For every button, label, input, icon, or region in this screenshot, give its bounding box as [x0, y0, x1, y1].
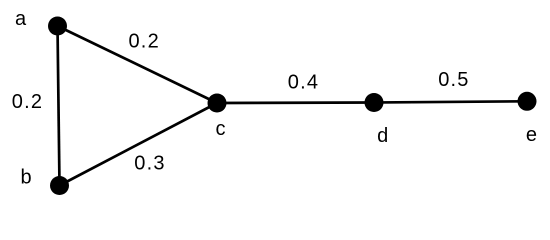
svg-text:0.3: 0.3 [134, 152, 165, 174]
svg-text:b: b [20, 167, 31, 189]
svg-text:0.4: 0.4 [288, 71, 319, 93]
svg-text:d: d [377, 125, 388, 147]
svg-text:a: a [15, 8, 27, 30]
svg-text:0.2: 0.2 [12, 91, 43, 113]
svg-text:0.2: 0.2 [128, 30, 159, 52]
svg-text:0.5: 0.5 [438, 69, 469, 91]
svg-text:e: e [526, 124, 537, 146]
svg-text:c: c [216, 118, 226, 140]
